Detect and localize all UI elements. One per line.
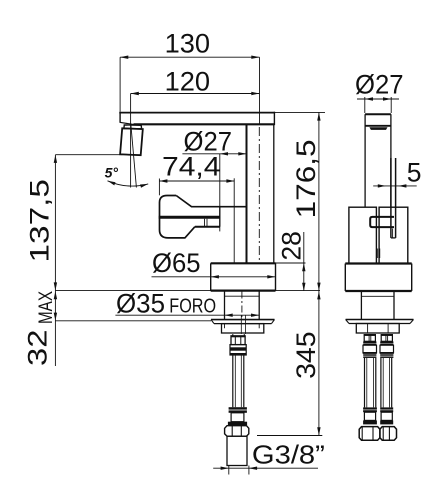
shank centerline (dash-dot) — [241, 292, 243, 320]
extension line from 74.4 dim down to base — [233, 178, 235, 263]
base block (front view) — [211, 263, 276, 290]
dim 137.5 — [54, 155, 123, 291]
hose end fitting (front view) — [228, 413, 247, 425]
dim 28 — [274, 232, 306, 291]
hex nut G3/8 (front view) — [225, 426, 249, 437]
side view retaining box — [356, 324, 399, 334]
side view spout column — [365, 114, 391, 207]
dim 32 MAX — [54, 291, 57, 366]
svg-text:130: 130 — [165, 29, 211, 59]
flexible hose (front view) — [233, 355, 244, 407]
spout horizontal bar (front view) — [119, 112, 275, 125]
dim 176.5 — [274, 112, 325, 291]
svg-text:345: 345 — [291, 331, 321, 379]
svg-text:5: 5 — [407, 157, 422, 187]
side view flange plate — [346, 320, 414, 324]
svg-text:28: 28 — [277, 231, 307, 261]
5 deg angle arc with arrows — [108, 181, 149, 188]
svg-text:32: 32 — [22, 330, 52, 367]
hose top nut (front view) — [231, 336, 246, 345]
svg-text:Ø27: Ø27 — [355, 70, 404, 100]
dim G3/8 — [213, 466, 318, 475]
side view left hose — [365, 358, 376, 407]
svg-text:5°: 5° — [105, 165, 119, 181]
side view body box — [349, 207, 408, 263]
dim 5 side view — [373, 184, 417, 187]
label 32 MAX — [22, 291, 57, 366]
flange plate under counter (front view) — [211, 320, 275, 324]
retaining box under flange (front view) — [222, 324, 264, 333]
dim dia35 FORO — [115, 314, 259, 317]
hose lower band (front view) — [229, 407, 247, 413]
side view handle pivot pin — [370, 217, 394, 227]
angle tilted axis line — [131, 124, 137, 188]
threaded studs (front view) — [233, 315, 246, 336]
side view right hose — [381, 358, 392, 407]
aerator connector under spout end — [120, 122, 135, 124]
hose collar (front view) — [230, 345, 246, 355]
dim 120 — [131, 57, 260, 124]
side view handle blade — [391, 158, 396, 238]
dim dia27 handle — [182, 152, 246, 155]
svg-text:74,4: 74,4 — [162, 152, 221, 182]
side view left hose fitting — [363, 335, 377, 358]
side view hose lower bands — [363, 407, 393, 412]
counter bottom line — [55, 320, 211, 322]
svg-text:120: 120 — [165, 67, 211, 97]
svg-text:Ø65: Ø65 — [152, 248, 201, 278]
side view base block — [345, 264, 411, 292]
side view right hose fitting — [380, 335, 394, 358]
side view shank — [361, 291, 394, 319]
svg-text:176,5: 176,5 — [291, 139, 321, 218]
G3/8 threaded stub (front view) — [227, 436, 247, 465]
svg-text:FORO: FORO — [169, 295, 216, 318]
svg-text:Ø35: Ø35 — [116, 289, 165, 319]
side view aerator — [369, 127, 387, 130]
counter top line — [55, 290, 320, 292]
svg-text:MAX: MAX — [35, 291, 57, 324]
label dia35 FORO — [116, 289, 216, 319]
body column centerline (dash-dot) — [258, 127, 260, 262]
svg-text:137,5: 137,5 — [24, 179, 54, 263]
dim 74.4 — [159, 179, 234, 196]
extension line at handle stem end (for dia 27) — [219, 154, 221, 232]
dim 345 — [257, 291, 322, 436]
side view bottom hex nuts — [359, 427, 396, 441]
svg-text:G3/8”: G3/8” — [252, 441, 325, 469]
handle lever (front view) — [159, 196, 247, 238]
side view hose end fittings — [363, 412, 393, 424]
angle reference vertical line — [130, 124, 132, 187]
dim dia65 — [152, 275, 276, 278]
dim 130 — [120, 56, 259, 112]
mounting shank through counter (front view) — [225, 291, 260, 320]
faucet body column (front view) — [247, 125, 274, 264]
tilted aerator nozzle (5 deg) — [120, 128, 143, 155]
dim dia27 side view — [357, 97, 399, 113]
